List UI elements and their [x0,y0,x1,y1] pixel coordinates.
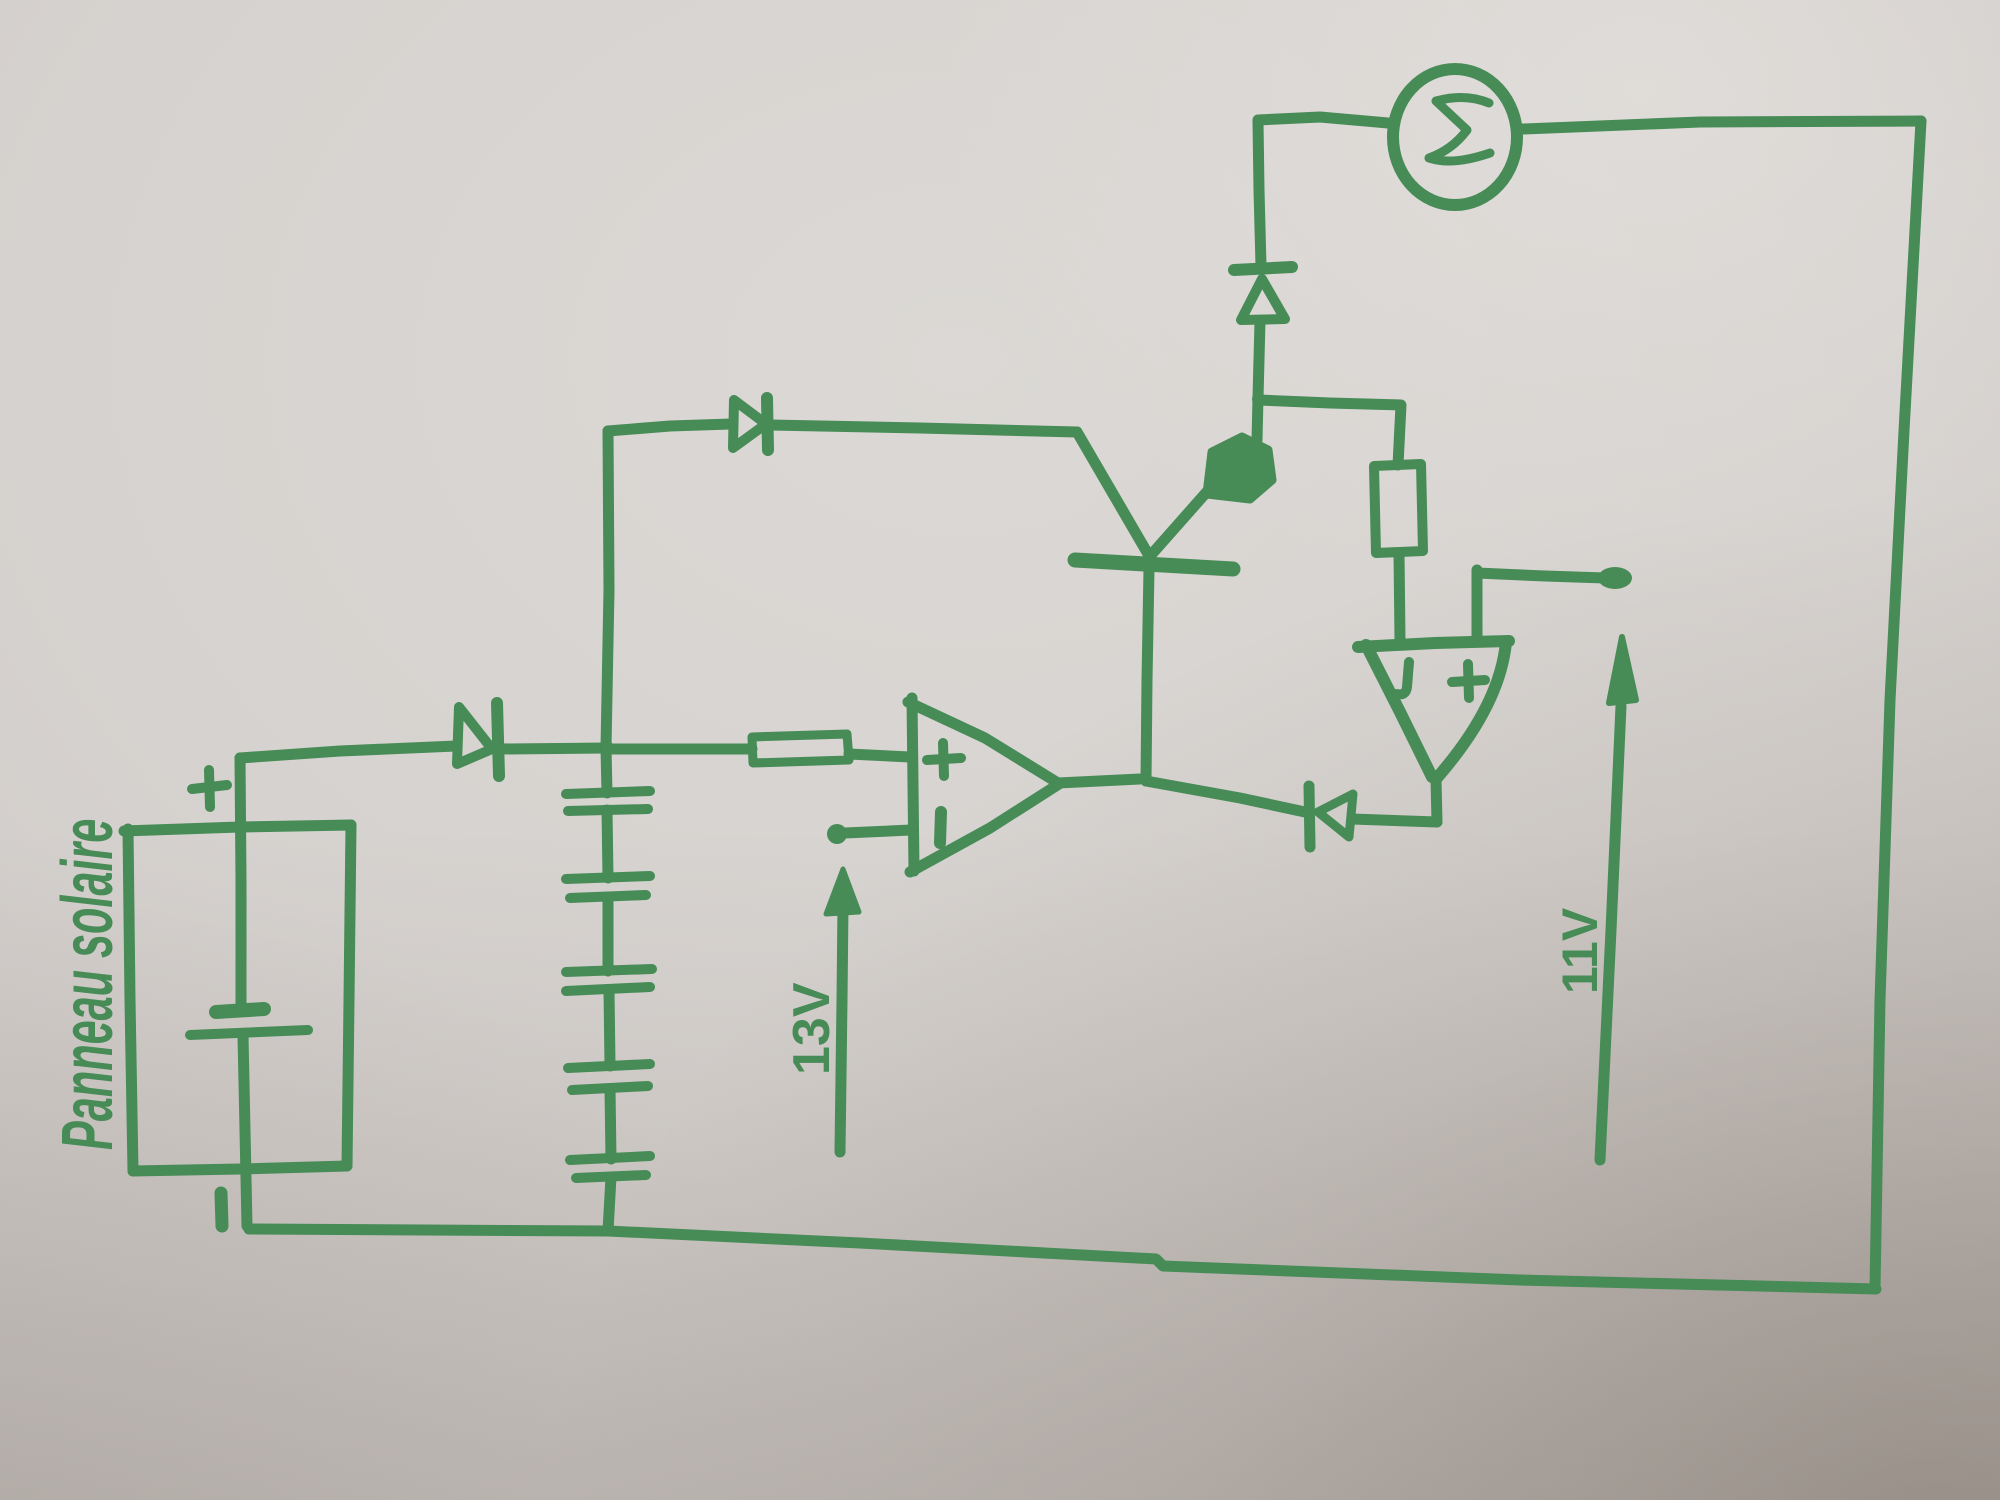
wire bottom bus [249,1229,1876,1289]
diode D2 [733,398,768,450]
node B junction [1252,393,1264,405]
meter M1 circle [1393,69,1517,205]
wire from meter M1 to top-right corner [1523,121,1921,129]
capacitor C1 [566,791,650,811]
wire U2 non-inverting input to probe dot [1477,573,1605,578]
op-amp U1 plus input label [927,743,961,776]
wire from emitter arrowhead up to node B [1257,398,1258,440]
svg-text:11V: 11V [1552,907,1608,994]
wire from node B right and down to resistor R3 [1259,400,1401,465]
wire from D4 up to top corner [1258,121,1261,266]
capacitor C4 [568,1064,650,1090]
op-amp U2 plus input label [1452,664,1485,698]
13V measurement arrow shaft [840,905,843,1152]
op-amp U2 minus input label [1397,662,1409,694]
wire from plus terminal down to cell B1 [240,758,241,1007]
diode D4 [1234,267,1292,320]
meter M1 sigma symbol [1429,97,1490,161]
wire C3 to C4 [609,990,610,1066]
op-amp U1 minus input label [940,812,941,843]
diode D3 [1309,786,1353,847]
plus terminal label of PV1 [192,770,227,807]
battery cell B1 long plate [190,1030,308,1035]
transistor Q1 collector lead down [1146,569,1149,781]
wire from node A up to top-left corner of feedback branch [606,431,609,747]
wire node A to C1 [606,748,607,793]
transistor Q1 emitter arrowhead [1207,437,1272,499]
wire from top corner to meter M1 [1258,117,1388,123]
wire from panel plus terminal to diode D1 [240,746,456,758]
resistor R3 [1374,464,1423,553]
13V measurement arrowhead [826,869,859,914]
11V measurement arrow shaft [1600,706,1621,1160]
diode D1 [457,703,499,776]
wire U2 output corner up to apex [1436,780,1437,822]
battery cell B1 short plate [216,1009,264,1012]
11V measurement arrowhead [1609,637,1636,703]
wire D3 to op-amp U2 output corner [1352,819,1437,822]
resistor R2 [752,734,849,763]
capacitor C5 [570,1156,650,1178]
op-amp U1 [908,698,1059,872]
transistor Q1 base bar [1075,560,1233,569]
wire op-amp U1 output to node C [1058,779,1140,783]
wire C5 to bottom bus [608,1177,611,1231]
minus terminal label of PV1 [221,1193,222,1226]
node A junction dot [600,741,614,755]
wire probe dot to U1 inverting input [845,830,911,833]
node dot at U1 inverting input (13V probe point) [827,824,847,844]
wire from cell B1 down to minus corner [243,1036,247,1226]
transistor Q1 base diagonal lead [1077,432,1148,554]
capacitor C3 [566,969,652,991]
wire from node B up to diode D4 [1258,321,1260,398]
wire from D2 to transistor Q1 base bend [770,425,1077,432]
wire top branch corner to diode D2 [608,424,731,431]
transistor Q1 emitter lead [1151,486,1212,555]
svg-text:13V: 13V [783,982,841,1075]
op-amp U2 [1358,641,1509,779]
wire U2 non-inverting input lead up [1472,570,1483,641]
wire node C to diode D3 [1146,781,1305,812]
wire node A to resistor R2 [607,744,752,755]
capacitor C2 [566,876,650,898]
solar panel PV1 (Panneau solaire box) [124,825,351,1171]
wire R2 to op-amp U1 non-inverting input [849,754,910,757]
wire C2 to C3 [603,897,614,971]
wire from R3 down to op-amp U2 inverting input [1399,553,1400,640]
wire right side vertical [1875,121,1921,1289]
wire C4 to C5 [610,1089,611,1159]
node dot at 11V probe point [1598,567,1632,589]
svg-text:Panneau solaire: Panneau solaire [47,819,128,1150]
node C junction dot [1140,774,1152,786]
wire C1 to C2 [607,810,608,878]
wire from D1 to node A [502,748,607,749]
